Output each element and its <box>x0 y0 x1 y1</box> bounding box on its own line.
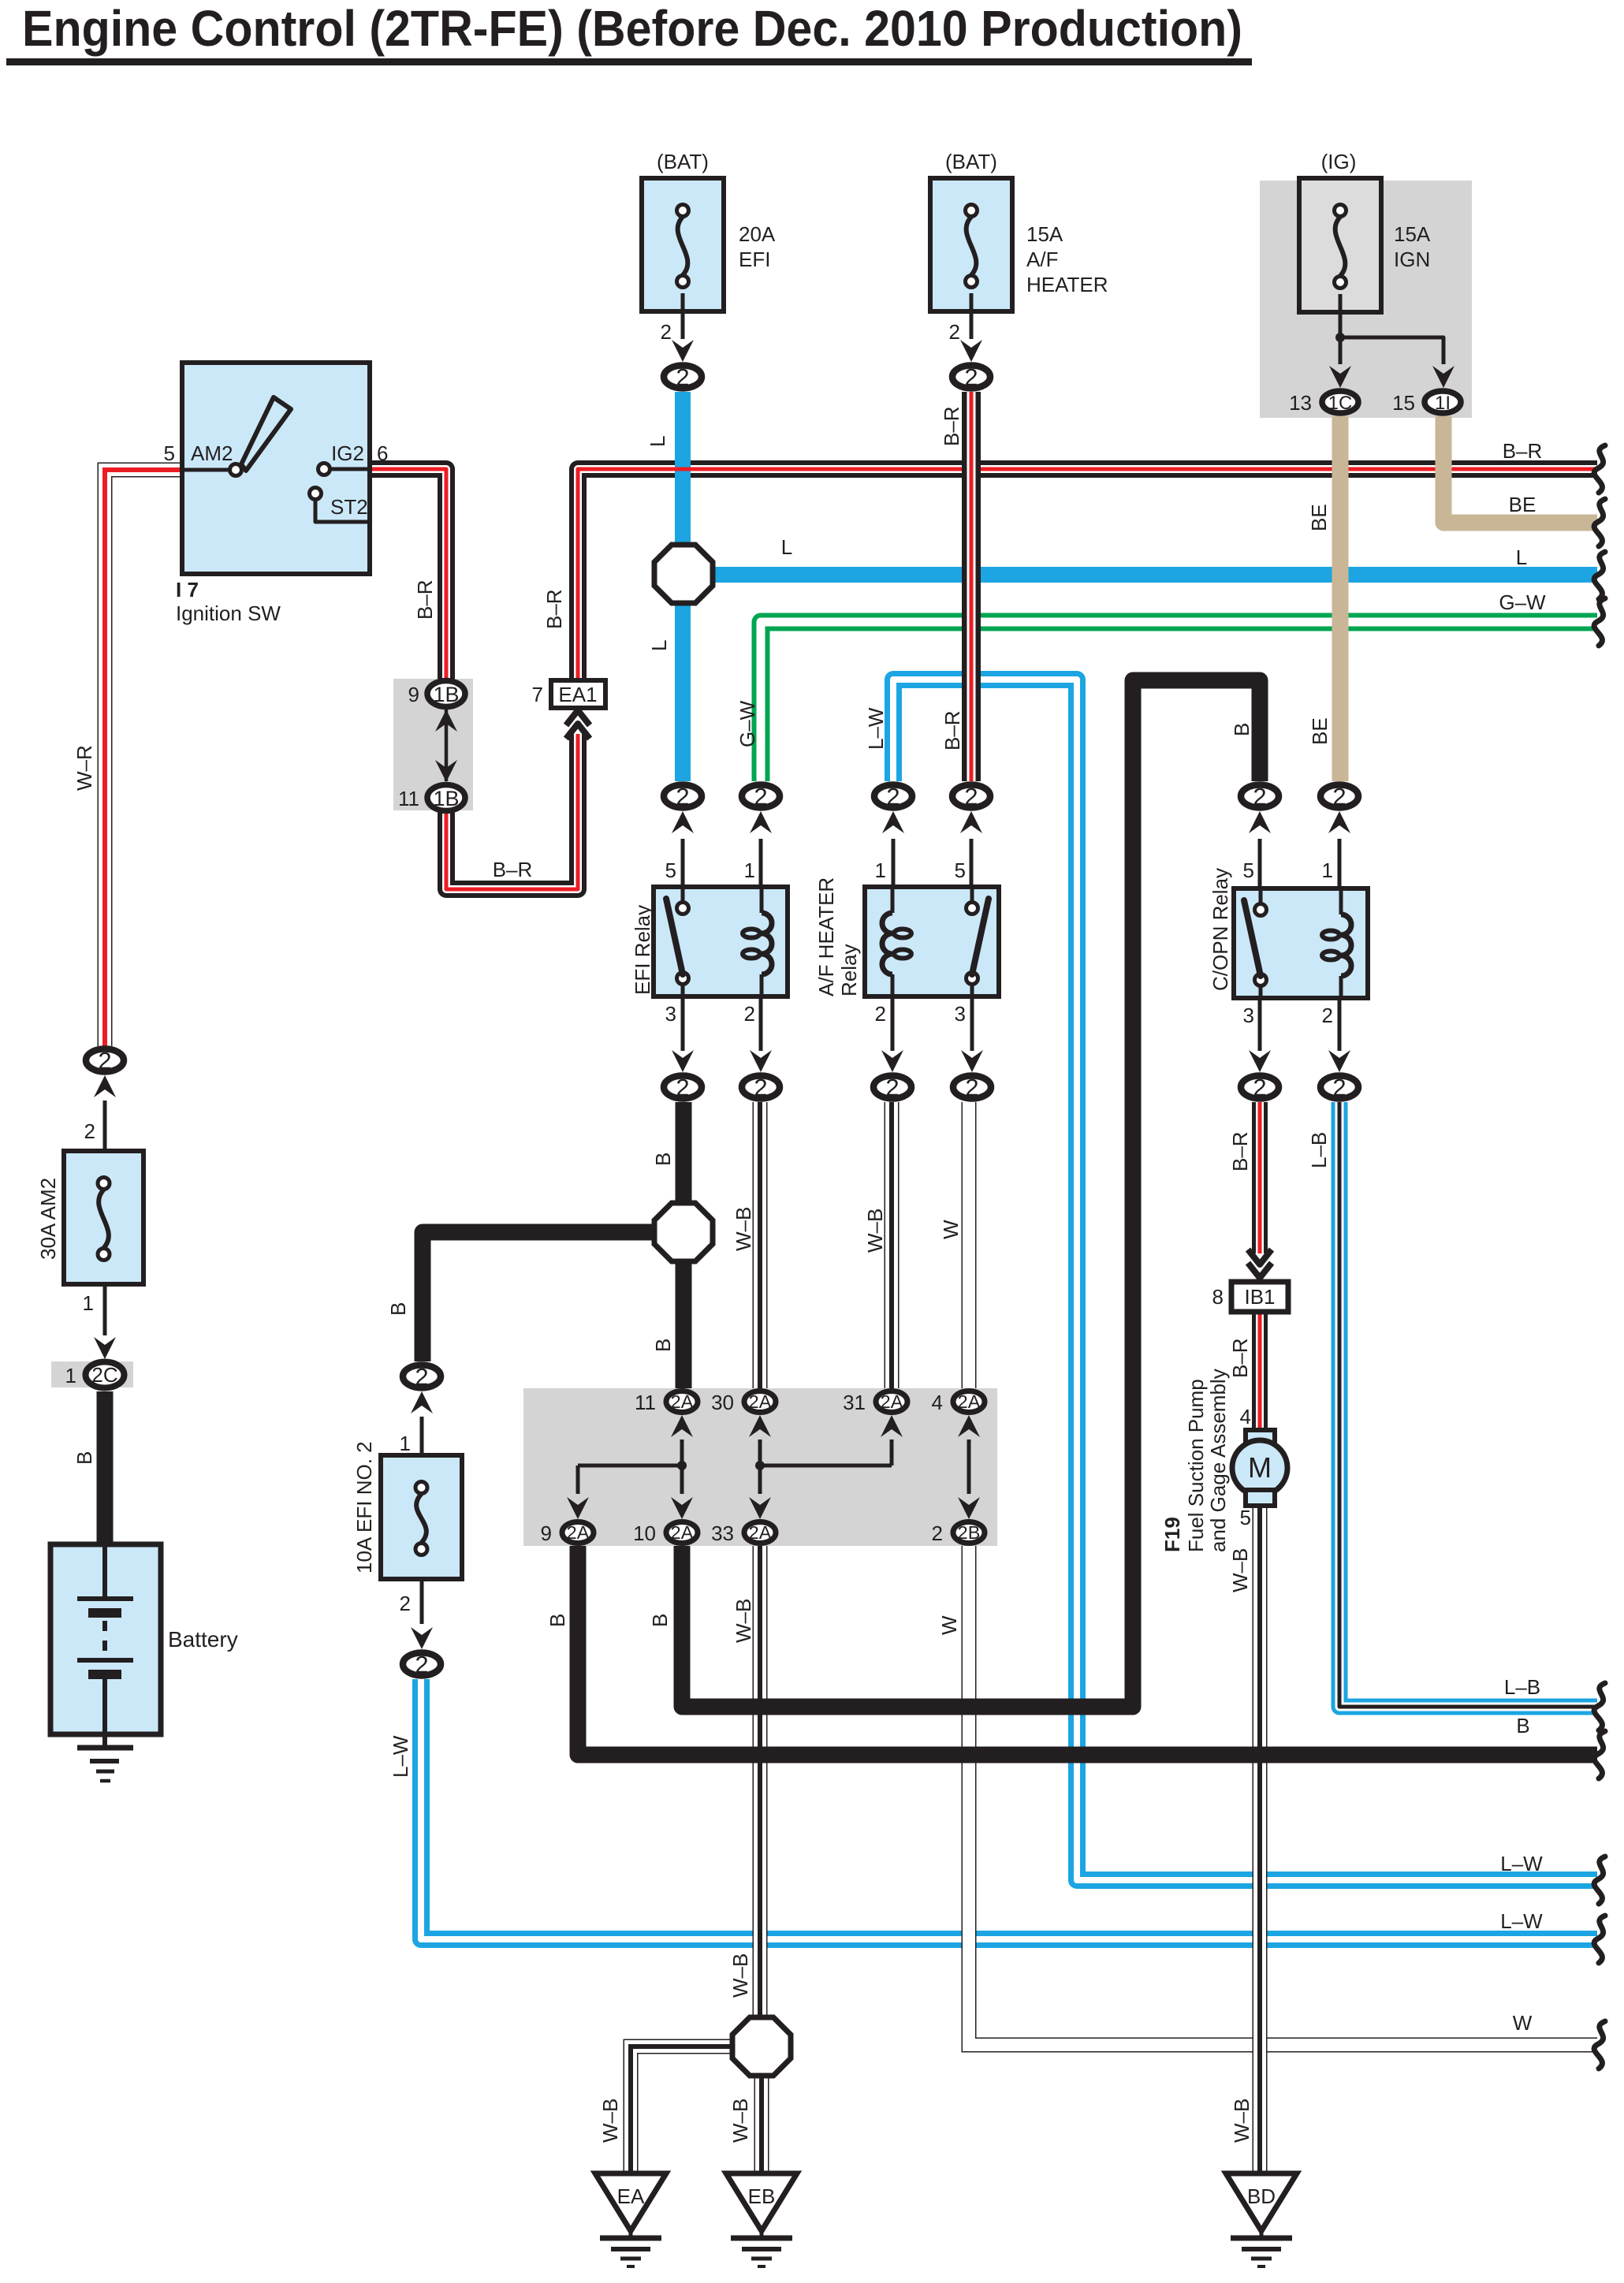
svg-text:2: 2 <box>1253 783 1266 810</box>
wire W-B splice to ground EB <box>754 2073 769 2173</box>
connector 2 above relay x=1598 <box>1241 785 1279 808</box>
svg-text:M: M <box>1248 1451 1272 1484</box>
wire B-R main bus and branch to EA1 <box>578 469 1597 680</box>
svg-text:L–W: L–W <box>389 1735 412 1778</box>
wire B thick splice to EFI NO.2 fuse <box>423 1232 659 1361</box>
svg-text:(BAT): (BAT) <box>657 150 709 173</box>
wire W A/F relay pin 3 to ECU 4 2A <box>962 1102 977 1388</box>
svg-text:1I: 1I <box>1435 393 1451 414</box>
svg-text:2: 2 <box>676 363 689 391</box>
relay C/OPN Relay <box>1234 888 1368 998</box>
svg-text:G–W: G–W <box>736 700 759 747</box>
svg-text:W–B: W–B <box>732 1599 755 1643</box>
svg-text:B: B <box>1230 723 1253 736</box>
connector 33 2A <box>744 1522 776 1544</box>
svg-text:2: 2 <box>98 1047 111 1074</box>
fuse 30A AM2 <box>64 1151 143 1284</box>
svg-text:20A: 20A <box>739 222 776 246</box>
svg-text:Battery: Battery <box>168 1627 238 1652</box>
svg-text:2C: 2C <box>91 1363 117 1387</box>
svg-text:B–R: B–R <box>493 858 533 881</box>
gray panel ECU connector 2A <box>523 1388 997 1546</box>
svg-text:L: L <box>646 436 669 447</box>
svg-text:2A: 2A <box>958 1391 981 1412</box>
arrow into connector 2 above relay x=1232 <box>960 811 982 833</box>
connector 1I <box>1425 391 1461 413</box>
svg-text:Ignition SW: Ignition SW <box>176 601 281 625</box>
svg-text:2: 2 <box>84 1119 95 1143</box>
wire B-R A/F heater fuse to A/F relay pin 5 <box>962 392 981 781</box>
ground EA <box>595 2173 666 2231</box>
svg-text:1: 1 <box>65 1364 76 1387</box>
wire G-W from right edge to EFI relay pin 1 <box>761 622 1597 781</box>
connector 2 EFI fuse <box>664 366 702 389</box>
svg-text:2: 2 <box>886 783 900 810</box>
svg-text:L: L <box>647 640 671 651</box>
svg-text:B: B <box>651 1339 675 1352</box>
svg-text:L: L <box>781 535 792 559</box>
arrow into connector 2 below A/F fuse <box>960 340 982 362</box>
svg-text:W: W <box>939 1220 963 1239</box>
wire B thick ECU 9 2A to right edge <box>578 1546 1597 1755</box>
ECU internal junctions <box>578 1464 682 1468</box>
svg-text:W–B: W–B <box>728 2099 752 2143</box>
svg-text:4: 4 <box>932 1391 943 1414</box>
svg-text:5: 5 <box>1240 1506 1251 1529</box>
splice octagon grounds <box>732 2017 791 2076</box>
svg-text:3: 3 <box>1243 1004 1254 1027</box>
svg-text:15: 15 <box>1392 391 1415 415</box>
svg-text:EA1: EA1 <box>558 683 597 706</box>
svg-text:B: B <box>546 1614 569 1627</box>
svg-text:3: 3 <box>955 1002 966 1026</box>
wire B connector 2C to battery <box>97 1391 114 1544</box>
ignition switch I7 <box>182 363 370 574</box>
connector 2 above relay x=1699 <box>1320 785 1358 808</box>
svg-text:2: 2 <box>932 1521 943 1545</box>
ignition switch IG2 contact <box>318 464 330 475</box>
svg-text:1: 1 <box>1322 858 1333 882</box>
connector 10 2A <box>666 1522 698 1544</box>
wire IGN fuse to 1I <box>1340 337 1443 364</box>
arrow into connector 2 above relay x=1598 <box>1249 811 1271 833</box>
connector 9 2A <box>562 1522 594 1544</box>
arrow into connector 2 above relay x=866 <box>672 811 694 833</box>
fuse 10A EFI NO.2 circuit <box>411 1391 433 1413</box>
svg-text:W–R: W–R <box>73 745 96 791</box>
wire BE fuse IGN 1I to right edge <box>1443 416 1597 523</box>
splice octagon L <box>654 545 713 603</box>
svg-text:W–B: W–B <box>863 1209 887 1253</box>
svg-text:W–B: W–B <box>1230 2099 1253 2143</box>
ignition switch AM2 contact <box>182 468 230 472</box>
relay EFI Relay <box>654 887 788 996</box>
svg-text:HEATER: HEATER <box>1026 273 1108 296</box>
ignition switch lever <box>241 397 291 471</box>
svg-text:2: 2 <box>1332 783 1346 810</box>
arrow into connector 2 above relay x=965 <box>750 811 772 833</box>
svg-text:2: 2 <box>400 1592 411 1615</box>
svg-text:5: 5 <box>164 441 175 465</box>
connector 31 2A <box>876 1391 907 1413</box>
svg-text:B–R: B–R <box>1228 1131 1252 1171</box>
svg-text:2A: 2A <box>567 1522 590 1543</box>
svg-text:Relay: Relay <box>837 944 861 996</box>
connector 1B upper <box>445 709 449 781</box>
wire B thick EFI relay pin 3 to splice <box>676 1102 692 1205</box>
svg-text:5: 5 <box>955 858 966 882</box>
fuse 15A A/F HEATER <box>930 178 1012 311</box>
svg-text:2: 2 <box>661 320 672 344</box>
svg-text:BE: BE <box>1308 717 1332 745</box>
fuel suction pump motor M F19 <box>1246 1430 1275 1446</box>
svg-text:30A AM2: 30A AM2 <box>36 1178 60 1260</box>
fuse 30A AM2 circuit <box>94 1075 116 1097</box>
svg-text:2A: 2A <box>749 1522 772 1543</box>
svg-text:2: 2 <box>1322 1004 1333 1027</box>
svg-text:2: 2 <box>415 1651 428 1678</box>
svg-text:W–B: W–B <box>728 1953 752 1998</box>
double chevron into IB1 <box>1248 1263 1272 1278</box>
gray panel connector 1B <box>393 679 473 810</box>
svg-text:EB: EB <box>748 2184 776 2208</box>
svg-text:2B: 2B <box>958 1522 981 1543</box>
wire L-W from EFI NO.2 fuse to right edge <box>421 1679 1597 1939</box>
svg-text:L–W: L–W <box>1500 1852 1543 1875</box>
arrow into connector 2 above relay x=1133 <box>882 811 904 833</box>
svg-text:B–R: B–R <box>1503 439 1543 463</box>
svg-text:2: 2 <box>744 1002 755 1026</box>
svg-text:EFI: EFI <box>739 248 770 271</box>
ignition switch ST2 contact <box>310 488 322 500</box>
svg-text:2: 2 <box>965 1074 978 1101</box>
svg-text:W: W <box>1513 2011 1533 2035</box>
arrow into connector 2 below EFI fuse <box>672 340 694 362</box>
svg-text:9: 9 <box>541 1521 552 1545</box>
svg-text:11: 11 <box>398 787 419 810</box>
wire L blue from EFI fuse through splice <box>675 392 691 546</box>
fuse 10A EFI NO.2 <box>381 1455 462 1579</box>
junction dot below IGN fuse <box>1335 333 1345 342</box>
connector 2 below relay x=1233 <box>953 1076 991 1099</box>
connector 11 2A <box>666 1391 698 1413</box>
svg-text:11: 11 <box>635 1391 656 1414</box>
connector 2 above AM2 fuse <box>86 1049 124 1072</box>
relay A/F HEATER Relay <box>865 887 999 996</box>
svg-text:2: 2 <box>754 783 767 810</box>
battery ground <box>102 1734 107 1748</box>
svg-text:2: 2 <box>415 1363 428 1391</box>
arrow into connector 2 below relay x=965 <box>759 996 763 1051</box>
svg-text:2: 2 <box>964 783 978 810</box>
connector 1 2C <box>86 1362 125 1388</box>
connector 2 below relay x=1598 <box>1241 1076 1279 1099</box>
gray panel IG fuse block <box>1260 181 1472 418</box>
svg-text:(IG): (IG) <box>1321 150 1357 173</box>
fuse 20A EFI <box>642 178 724 311</box>
svg-text:C/OPN Relay: C/OPN Relay <box>1209 868 1232 991</box>
ground BD <box>1226 2173 1297 2231</box>
arrow into connector 1I <box>1432 366 1455 388</box>
wire B-R ignition switch IG2 to connector 1B <box>369 469 446 679</box>
svg-text:A/F: A/F <box>1026 248 1058 271</box>
svg-text:B: B <box>73 1451 96 1465</box>
svg-text:AM2: AM2 <box>191 441 233 465</box>
fuse 15A IGN <box>1299 178 1381 312</box>
connector 2 above relay x=866 <box>664 785 702 808</box>
svg-text:1: 1 <box>400 1432 411 1455</box>
svg-text:A/F HEATER: A/F HEATER <box>814 877 838 996</box>
svg-text:2: 2 <box>949 320 960 344</box>
svg-text:4: 4 <box>1240 1405 1251 1428</box>
connector 2 above relay x=965 <box>742 785 780 808</box>
arrow into connector 1C <box>1329 366 1351 388</box>
wire L-W from A/F relay pin 1 to right edge <box>893 680 1597 1880</box>
connector 2 A/F fuse <box>952 366 990 389</box>
svg-text:2: 2 <box>676 1074 689 1101</box>
wire W ECU 2B to right edge <box>969 1546 1597 2045</box>
svg-text:W–B: W–B <box>1228 1548 1252 1592</box>
svg-text:G–W: G–W <box>1499 590 1546 614</box>
svg-text:F19: F19 <box>1160 1517 1184 1552</box>
svg-text:9: 9 <box>408 683 419 706</box>
svg-text:BE: BE <box>1307 504 1331 531</box>
svg-text:2: 2 <box>1253 1074 1266 1101</box>
connector 2 above relay x=1133 <box>874 785 912 808</box>
svg-text:BD: BD <box>1247 2184 1276 2208</box>
wire W-B ECU 33 2A to ground splice <box>753 1546 768 2020</box>
svg-text:6: 6 <box>377 441 388 465</box>
svg-text:1: 1 <box>83 1291 94 1315</box>
svg-text:1C: 1C <box>1328 393 1353 414</box>
svg-text:IB1: IB1 <box>1244 1285 1275 1309</box>
svg-text:2: 2 <box>875 1002 886 1026</box>
wire B thick ECU 10 2A to C/OPN relay pin 5 <box>682 680 1260 1707</box>
wire B thick splice to ECU 11 2A <box>676 1259 692 1388</box>
svg-text:15A: 15A <box>1026 222 1063 246</box>
connector 2 below EFI NO.2 fuse <box>403 1653 441 1676</box>
svg-text:L–B: L–B <box>1504 1675 1540 1699</box>
svg-text:B: B <box>648 1614 672 1627</box>
svg-text:5: 5 <box>1243 858 1254 882</box>
svg-text:10: 10 <box>633 1521 656 1545</box>
svg-text:and Gage Assembly: and Gage Assembly <box>1206 1369 1230 1552</box>
svg-text:8: 8 <box>1212 1285 1224 1309</box>
svg-text:13: 13 <box>1289 391 1312 415</box>
svg-text:W: W <box>937 1615 961 1635</box>
svg-text:30: 30 <box>711 1391 734 1414</box>
arrow into connector 2C <box>94 1337 116 1359</box>
wire W-B EFI relay pin 2 to ECU 30 2A <box>753 1102 768 1388</box>
connector 4 2A <box>953 1391 985 1413</box>
wire B-R C/OPN relay pin 3 to fuel pump <box>1252 1102 1268 1253</box>
svg-text:I 7: I 7 <box>176 578 199 601</box>
svg-text:W–B: W–B <box>732 1207 755 1251</box>
wire BE fuse IGN 1C to C/OPN relay pin 1 <box>1332 416 1349 781</box>
wire W-B splice to ground EA <box>631 2047 735 2173</box>
connector IB1 <box>1231 1282 1288 1312</box>
gray panel connector 2C <box>51 1361 133 1387</box>
ground EB <box>726 2173 797 2231</box>
connector 1C <box>1322 391 1358 413</box>
svg-text:EFI Relay: EFI Relay <box>631 905 654 995</box>
connector 2 above EFI NO.2 fuse <box>403 1365 441 1388</box>
arrow into connector 2 below relay x=1132 <box>891 996 895 1051</box>
svg-text:2A: 2A <box>749 1391 772 1412</box>
svg-text:B–R: B–R <box>940 406 963 446</box>
svg-text:15A: 15A <box>1394 222 1431 246</box>
svg-text:2A: 2A <box>671 1522 694 1543</box>
connector EA1 <box>566 710 590 725</box>
arrow into connector 2 above relay x=1699 <box>1328 811 1350 833</box>
svg-text:31: 31 <box>843 1391 866 1414</box>
connector 2 below relay x=1132 <box>873 1076 911 1099</box>
battery <box>50 1544 161 1734</box>
svg-text:B: B <box>651 1153 675 1166</box>
svg-text:ST2: ST2 <box>330 495 368 519</box>
svg-text:7: 7 <box>532 683 543 706</box>
arrow into connector 2 below relay x=1233 <box>970 996 974 1051</box>
svg-text:L–W: L–W <box>864 707 888 750</box>
svg-text:2: 2 <box>885 1074 899 1101</box>
svg-text:1: 1 <box>875 858 886 882</box>
svg-text:5: 5 <box>665 858 676 882</box>
svg-text:B: B <box>1516 1714 1529 1737</box>
svg-text:2: 2 <box>676 783 689 810</box>
wire W-R ignition switch AM2 to battery fuse <box>105 470 182 1046</box>
svg-text:IG2: IG2 <box>331 441 364 465</box>
svg-text:33: 33 <box>711 1521 734 1545</box>
ECU connector ovals row 1 <box>671 1415 693 1437</box>
splice octagon B <box>654 1203 713 1261</box>
svg-text:L–B: L–B <box>1307 1132 1331 1168</box>
svg-text:L: L <box>1516 546 1527 569</box>
svg-text:B–R: B–R <box>941 710 964 750</box>
svg-text:B–R: B–R <box>1228 1338 1252 1378</box>
connector 1B lower <box>427 785 465 811</box>
svg-text:10A EFI NO. 2: 10A EFI NO. 2 <box>352 1441 376 1574</box>
arrow into connector 2 below EFI NO.2 fuse <box>411 1627 433 1649</box>
svg-text:1B: 1B <box>433 787 459 810</box>
arrow into connector 2 below relay x=1699 <box>1338 996 1342 1051</box>
arrow into connector 2 below relay x=866 <box>681 996 685 1051</box>
svg-text:Engine Control (2TR-FE) (Befor: Engine Control (2TR-FE) (Before Dec. 201… <box>22 0 1242 57</box>
svg-text:B–R: B–R <box>413 579 437 620</box>
svg-text:L–W: L–W <box>1500 1909 1543 1933</box>
svg-text:(BAT): (BAT) <box>945 150 997 173</box>
svg-text:2: 2 <box>754 1074 767 1101</box>
svg-text:IGN: IGN <box>1394 248 1430 271</box>
svg-text:B: B <box>386 1302 410 1316</box>
svg-text:1: 1 <box>744 858 755 882</box>
wire W-B fuel pump to ground BD <box>1253 1505 1268 2173</box>
connector 2 below relay x=965 <box>742 1076 780 1099</box>
svg-text:2A: 2A <box>671 1391 694 1412</box>
connector 2 2B <box>953 1522 985 1544</box>
svg-text:2: 2 <box>964 363 978 391</box>
arrow into connector 2 below relay x=1598 <box>1258 996 1262 1051</box>
wire L-B C/OPN relay pin 2 to right edge <box>1339 1102 1597 1707</box>
wire B-R connector 1B to EA1 <box>446 734 578 889</box>
svg-text:2A: 2A <box>881 1391 903 1412</box>
svg-text:1B: 1B <box>433 683 459 706</box>
svg-text:3: 3 <box>665 1002 676 1026</box>
svg-text:2: 2 <box>1332 1074 1346 1101</box>
connector 2 below relay x=866 <box>664 1076 702 1099</box>
svg-text:Fuel Suction Pump: Fuel Suction Pump <box>1184 1379 1208 1552</box>
svg-text:BE: BE <box>1509 493 1536 516</box>
connector 30 2A <box>744 1391 776 1413</box>
connector 2 below relay x=1699 <box>1320 1076 1358 1099</box>
connector 2 above relay x=1232 <box>952 785 990 808</box>
svg-text:EA: EA <box>617 2184 645 2208</box>
wire W-B A/F relay pin 2 to ECU 31 2A <box>885 1102 900 1388</box>
svg-text:B–R: B–R <box>542 589 566 629</box>
svg-text:W–B: W–B <box>598 2099 622 2143</box>
